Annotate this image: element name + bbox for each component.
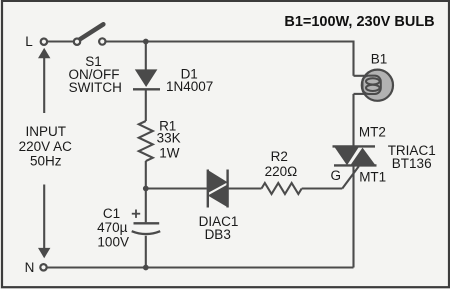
svg-text:470µ: 470µ	[97, 220, 128, 235]
svg-text:100V: 100V	[97, 235, 129, 250]
svg-text:C1: C1	[103, 206, 120, 221]
svg-text:220V AC: 220V AC	[19, 139, 73, 154]
svg-text:B1: B1	[371, 52, 388, 67]
svg-text:BT136: BT136	[392, 156, 432, 171]
svg-text:G: G	[331, 168, 342, 183]
svg-text:1N4007: 1N4007	[166, 79, 213, 94]
svg-text:R2: R2	[271, 149, 288, 164]
svg-text:50Hz: 50Hz	[30, 154, 62, 169]
svg-text:L: L	[25, 34, 33, 49]
svg-text:1W: 1W	[159, 145, 180, 160]
svg-text:MT2: MT2	[359, 125, 386, 140]
svg-text:B1=100W, 230V BULB: B1=100W, 230V BULB	[284, 14, 434, 30]
svg-text:N: N	[25, 260, 35, 275]
svg-text:SWITCH: SWITCH	[69, 80, 122, 95]
svg-text:MT1: MT1	[359, 170, 386, 185]
svg-text:220Ω: 220Ω	[265, 164, 298, 179]
svg-text:33K: 33K	[157, 131, 181, 146]
svg-text:INPUT: INPUT	[25, 124, 66, 139]
svg-text:DB3: DB3	[205, 227, 231, 242]
